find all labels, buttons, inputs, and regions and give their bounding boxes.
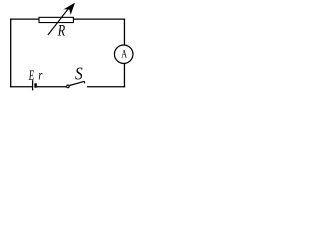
wire right vertical lower [123, 64, 125, 88]
wire bottom-right segment [87, 86, 125, 88]
wire bottom-middle segment [37, 86, 67, 88]
switch right contact nub [83, 81, 85, 83]
wire top-right segment [74, 18, 126, 20]
wire bottom-left segment [10, 86, 32, 88]
wire right vertical upper [123, 19, 125, 46]
svg-text:E: E [28, 68, 34, 84]
svg-text:r: r [38, 69, 42, 84]
rheostat arrow shaft [48, 7, 70, 35]
resistor R (rheostat body) [39, 17, 73, 22]
svg-text:A: A [121, 46, 127, 60]
switch blade [69, 81, 84, 85]
svg-text:S: S [75, 64, 83, 84]
wire top-left segment [10, 18, 39, 20]
wire left vertical [10, 19, 12, 88]
switch pivot contact [67, 85, 70, 88]
rheostat arrowhead [65, 4, 74, 14]
svg-text:R: R [57, 22, 66, 39]
battery long plate [32, 80, 34, 90]
ammeter circle [114, 45, 133, 64]
battery short thick plate [34, 83, 37, 87]
